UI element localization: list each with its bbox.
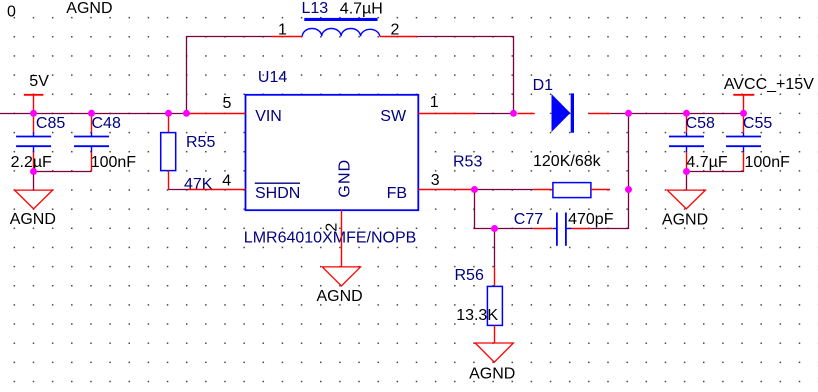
svg-text:100nF: 100nF <box>91 154 137 171</box>
svg-text:C85: C85 <box>36 115 65 132</box>
svg-text:5: 5 <box>223 95 232 112</box>
svg-text:AGND: AGND <box>10 211 56 228</box>
ground AGND right <box>662 190 708 228</box>
svg-text:3: 3 <box>431 172 440 189</box>
junction <box>625 110 632 117</box>
svg-text:5V: 5V <box>29 73 49 90</box>
capacitor C58 <box>669 113 728 172</box>
resistor R56 <box>455 267 503 343</box>
svg-text:13.3K: 13.3K <box>456 307 498 324</box>
resistor R55 <box>161 113 216 193</box>
junction <box>471 186 478 193</box>
svg-text:AGND: AGND <box>469 365 515 382</box>
svg-text:SW: SW <box>380 108 407 125</box>
svg-text:C58: C58 <box>686 115 715 132</box>
wire <box>33 171 92 173</box>
pin 3 FB <box>418 172 476 189</box>
capacitor C48 <box>74 113 136 172</box>
svg-text:FB: FB <box>387 185 407 202</box>
ground AGND left <box>10 190 56 228</box>
wire <box>168 189 188 191</box>
wire <box>475 189 534 191</box>
wire <box>686 171 688 190</box>
svg-text:100nF: 100nF <box>745 154 791 171</box>
svg-text:C77: C77 <box>514 211 543 228</box>
pin 5 VIN <box>188 95 246 114</box>
wire <box>33 171 35 190</box>
svg-text:120K/68k: 120K/68k <box>533 153 602 170</box>
wire <box>474 228 534 230</box>
svg-text:AGND: AGND <box>66 0 112 17</box>
junction <box>510 110 517 117</box>
inductor L13 <box>272 0 418 38</box>
wire <box>417 36 514 38</box>
wire <box>476 113 514 115</box>
power AVCC_+15V <box>724 76 814 114</box>
diode D1 <box>517 77 610 133</box>
wire <box>628 113 630 229</box>
svg-text:U14: U14 <box>258 69 287 86</box>
svg-text:2: 2 <box>324 223 341 232</box>
capacitor C85 <box>11 113 66 172</box>
svg-text:D1: D1 <box>533 77 554 94</box>
svg-text:GND: GND <box>336 159 353 198</box>
wire <box>686 171 744 173</box>
ground AGND R56 <box>469 343 515 382</box>
wire <box>513 36 515 114</box>
junction <box>625 186 632 193</box>
wire <box>474 189 476 229</box>
wire <box>590 228 629 230</box>
junction <box>491 225 498 232</box>
junction <box>30 168 37 175</box>
svg-text:4.7µF: 4.7µF <box>686 154 727 171</box>
pin 1 SW <box>418 94 476 113</box>
svg-text:1: 1 <box>278 21 287 38</box>
capacitor C77 <box>514 211 614 246</box>
power 5V <box>24 73 49 113</box>
resistor R53 120K/68k <box>453 153 610 198</box>
junction <box>683 110 690 117</box>
svg-text:C48: C48 <box>92 115 121 132</box>
op-amp U14 LMR64010 box <box>244 69 418 246</box>
svg-text:AVCC_+15V: AVCC_+15V <box>724 76 814 93</box>
ground AGND middle <box>317 267 363 305</box>
svg-text:4.7µH: 4.7µH <box>340 0 383 17</box>
svg-text:R53: R53 <box>453 154 482 171</box>
pin 4 SHDN <box>188 172 246 189</box>
svg-text:470pF: 470pF <box>568 211 614 228</box>
svg-text:47K: 47K <box>184 176 213 193</box>
wire <box>0 113 187 115</box>
wire <box>186 36 188 114</box>
capacitor C55 <box>726 113 790 172</box>
wire <box>494 228 496 267</box>
svg-text:4: 4 <box>222 172 231 189</box>
svg-text:VIN: VIN <box>255 108 282 125</box>
junction <box>740 110 747 117</box>
wire <box>186 36 272 38</box>
junction <box>165 110 172 117</box>
svg-text:R56: R56 <box>455 267 484 284</box>
junction <box>88 110 95 117</box>
svg-text:2.2µF: 2.2µF <box>11 154 52 171</box>
junction <box>30 110 37 117</box>
wire <box>610 113 744 115</box>
junction <box>683 168 690 175</box>
svg-text:R55: R55 <box>186 134 215 151</box>
svg-text:SHDN: SHDN <box>255 185 300 202</box>
svg-text:1: 1 <box>430 94 439 111</box>
svg-text:AGND: AGND <box>317 288 363 305</box>
svg-text:C55: C55 <box>743 115 772 132</box>
junction <box>183 110 190 117</box>
svg-text:AGND: AGND <box>662 211 708 228</box>
svg-text:0: 0 <box>7 4 16 21</box>
svg-text:L13: L13 <box>302 0 329 17</box>
svg-text:2: 2 <box>391 21 400 38</box>
pin 2 GND <box>324 210 342 267</box>
